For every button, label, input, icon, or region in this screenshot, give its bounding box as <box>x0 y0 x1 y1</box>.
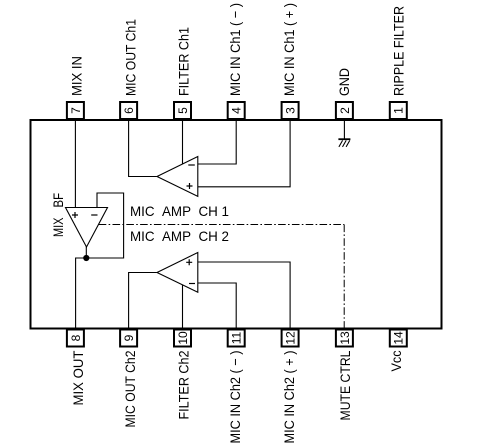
wire CH2 output to pin 9 <box>129 273 157 329</box>
svg-text:13: 13 <box>338 331 352 345</box>
pin 5 <box>174 102 191 119</box>
svg-text:5: 5 <box>176 107 190 114</box>
op-amp MIC AMP CH2 <box>157 253 198 293</box>
svg-text:MIC AMP CH 1: MIC AMP CH 1 <box>130 203 229 219</box>
svg-text:14: 14 <box>392 331 406 345</box>
svg-text:12: 12 <box>284 331 298 345</box>
pin 4 <box>228 102 245 119</box>
svg-text:10: 10 <box>176 331 190 345</box>
wire CH1 output to pin 6 <box>129 121 157 177</box>
junction dot <box>83 255 89 261</box>
svg-text:1: 1 <box>392 107 406 114</box>
svg-text:MIC IN Ch1 ( + ): MIC IN Ch1 ( + ) <box>281 3 297 96</box>
wire pin 4 to CH1 inverting input <box>198 121 236 164</box>
pin 11 <box>228 330 245 347</box>
MIX BF output wire <box>85 247 87 259</box>
svg-text:8: 8 <box>69 334 83 341</box>
MIX BF feedback wire <box>89 193 124 258</box>
svg-text:9: 9 <box>122 334 136 341</box>
svg-text:2: 2 <box>338 107 352 114</box>
wire junction to pin 8 <box>76 258 87 328</box>
op-amp MIC AMP CH1 <box>157 157 198 197</box>
pin 6 <box>120 102 137 119</box>
svg-text:MIC OUT Ch1: MIC OUT Ch1 <box>123 19 139 96</box>
wire pin 3 to CH1 non-inverting input <box>198 121 290 187</box>
svg-text:MIC IN Ch2 ( + ): MIC IN Ch2 ( + ) <box>281 351 297 444</box>
pin 7 <box>67 102 84 119</box>
wire pin 7 to MIX BF + input <box>74 121 76 207</box>
svg-text:MIX: MIX <box>50 217 66 237</box>
svg-text:7: 7 <box>69 107 83 114</box>
svg-text:MIC IN Ch1 ( − ): MIC IN Ch1 ( − ) <box>227 3 243 96</box>
svg-text:3: 3 <box>284 107 298 114</box>
ground <box>338 121 350 147</box>
svg-text:MIC IN Ch2 ( − ): MIC IN Ch2 ( − ) <box>227 351 243 444</box>
svg-text:11: 11 <box>230 331 244 344</box>
op-amp MIX BF <box>66 208 108 248</box>
pin 12 <box>282 330 299 347</box>
pin 13 <box>336 330 353 347</box>
svg-text:BF: BF <box>50 193 66 208</box>
svg-text:GND: GND <box>336 68 352 96</box>
wire pin 5 to CH1 filter node <box>182 121 184 164</box>
svg-text:Vcc: Vcc <box>388 351 404 372</box>
wire pin 12 to CH2 non-inverting input <box>198 262 290 328</box>
pin 9 <box>120 330 137 347</box>
pin 14 <box>390 330 407 347</box>
pin 3 <box>282 102 299 119</box>
svg-text:MUTE CTRL: MUTE CTRL <box>337 350 353 420</box>
svg-text:6: 6 <box>122 107 136 114</box>
svg-text:4: 4 <box>230 107 244 114</box>
pin 2 <box>336 102 353 119</box>
wire pin 11 to CH2 inverting input <box>198 283 236 328</box>
svg-text:MIC AMP CH 2: MIC AMP CH 2 <box>130 228 229 244</box>
svg-text:MIX IN: MIX IN <box>69 56 85 96</box>
IC body <box>31 120 442 329</box>
pin 1 <box>390 102 407 119</box>
mute control dash-dot line to pin 13 <box>99 225 345 329</box>
pin 10 <box>174 330 191 347</box>
svg-text:FILTER Ch2: FILTER Ch2 <box>175 350 191 419</box>
svg-text:FILTER Ch1: FILTER Ch1 <box>175 27 191 96</box>
wire pin 10 to CH2 filter node <box>182 285 184 328</box>
svg-text:MIC OUT Ch2: MIC OUT Ch2 <box>122 350 138 427</box>
pin 8 <box>67 330 84 347</box>
svg-text:RIPPLE FILTER: RIPPLE FILTER <box>391 6 407 96</box>
svg-text:MIX OUT: MIX OUT <box>70 350 86 405</box>
